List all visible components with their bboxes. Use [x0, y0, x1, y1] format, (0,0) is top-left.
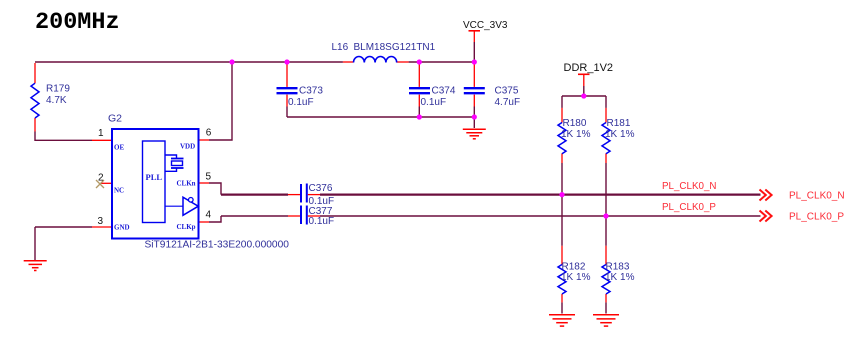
svg-text:R181: R181 [607, 118, 631, 129]
svg-text:0.1uF: 0.1uF [288, 97, 314, 108]
svg-text:1K 1%: 1K 1% [561, 272, 591, 283]
svg-text:1K 1%: 1K 1% [605, 129, 635, 140]
svg-text:C373: C373 [299, 86, 323, 97]
svg-text:2: 2 [98, 172, 104, 183]
svg-text:GND: GND [114, 224, 130, 232]
svg-text:C374: C374 [432, 86, 456, 97]
svg-text:R182: R182 [562, 261, 586, 272]
svg-text:PL_CLK0_N: PL_CLK0_N [789, 191, 845, 202]
svg-text:PL_CLK0_P: PL_CLK0_P [789, 212, 844, 223]
svg-text:4.7K: 4.7K [46, 95, 67, 106]
svg-text:C376: C376 [309, 183, 333, 194]
svg-text:OE: OE [114, 144, 124, 152]
svg-text:0.1uF: 0.1uF [421, 97, 447, 108]
svg-text:R179: R179 [46, 84, 70, 95]
svg-text:200MHz: 200MHz [35, 9, 120, 36]
svg-text:1: 1 [98, 128, 104, 139]
svg-text:VCC_3V3: VCC_3V3 [463, 20, 508, 31]
svg-text:PLL: PLL [146, 172, 163, 182]
svg-text:5: 5 [206, 172, 212, 183]
svg-text:1K 1%: 1K 1% [561, 129, 591, 140]
svg-text:VDD: VDD [180, 143, 195, 151]
svg-text:R183: R183 [606, 261, 630, 272]
svg-text:PL_CLK0_P: PL_CLK0_P [662, 202, 716, 213]
svg-text:0.1uF: 0.1uF [309, 216, 335, 227]
svg-text:SiT9121AI-2B1-33E200.000000: SiT9121AI-2B1-33E200.000000 [145, 240, 290, 251]
svg-text:PL_CLK0_N: PL_CLK0_N [662, 181, 716, 192]
svg-text:C375: C375 [495, 86, 519, 97]
svg-text:R180: R180 [563, 118, 587, 129]
svg-text:CLKn: CLKn [177, 179, 196, 187]
svg-text:BLM18SG121TN1: BLM18SG121TN1 [354, 42, 436, 53]
svg-text:6: 6 [206, 128, 212, 139]
svg-text:CLKp: CLKp [177, 223, 196, 231]
svg-text:1K 1%: 1K 1% [605, 272, 635, 283]
svg-text:L16: L16 [332, 42, 349, 53]
svg-text:4: 4 [206, 210, 212, 221]
svg-text:DDR_1V2: DDR_1V2 [564, 62, 614, 74]
svg-text:NC: NC [114, 187, 124, 195]
svg-text:G2: G2 [108, 113, 122, 125]
svg-text:3: 3 [98, 216, 104, 227]
svg-text:4.7uF: 4.7uF [495, 97, 521, 108]
